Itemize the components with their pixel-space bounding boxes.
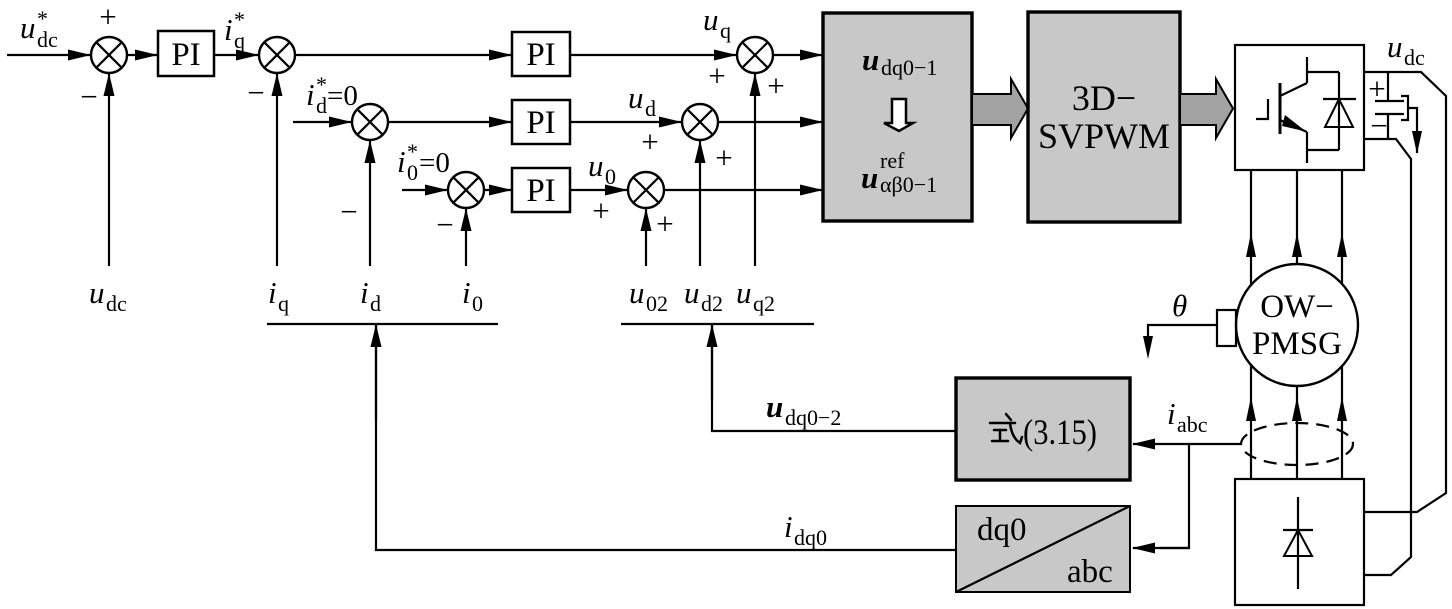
wire: u_dq0-2 from eq block to bus: [712, 325, 956, 431]
wire: i_0 feedback up into S6: [465, 209, 467, 266]
diode D1 antiparallel: [1307, 72, 1356, 150]
wire S5 to transform block: [718, 121, 822, 123]
svg-text:=0: =0: [327, 80, 358, 112]
svg-text:i: i: [360, 275, 369, 310]
svg-text:−: −: [340, 194, 357, 229]
PI block PI3: [512, 100, 570, 144]
summing junction S2: [259, 37, 295, 73]
IGBT Q1 collector lead: [1280, 57, 1307, 96]
svg-text:abc: abc: [1177, 412, 1208, 437]
label u_dc at DC link: [1387, 29, 1425, 70]
phase line a machine to rectifier: [1246, 365, 1256, 479]
wire PI3 to S5: [570, 121, 681, 123]
wire: i_abc branch to dq0/abc block: [1133, 444, 1189, 548]
3D-SVPWM block: [1028, 12, 1180, 222]
svg-text:q2: q2: [753, 291, 775, 316]
svg-text:abc: abc: [1067, 554, 1113, 590]
svg-text:PI: PI: [526, 37, 555, 73]
svg-text:u: u: [736, 275, 752, 310]
wire: i_d feedback up into S4: [369, 141, 371, 266]
wire: DC link negative rail: [1364, 139, 1411, 575]
plus sign left of S3: [708, 58, 725, 93]
svg-text:−: −: [247, 75, 264, 110]
svg-text:i: i: [306, 77, 315, 112]
plus sign right of S5: [715, 140, 732, 175]
svg-text:+: +: [708, 58, 725, 93]
label i*d=0: [306, 72, 358, 118]
wire PI1 to S2: [214, 54, 258, 56]
label i*0=0: [397, 139, 450, 185]
wire PI2 to S3: [570, 54, 736, 56]
label i_q on feedback bus: [268, 275, 289, 316]
label u_0: [588, 148, 616, 189]
svg-text:u: u: [862, 42, 879, 77]
phase line c converter to machine: [1337, 170, 1347, 284]
transform block u_dq0-1 to u_ref: [823, 13, 972, 221]
wire: u_dc feedback up into S1: [108, 74, 110, 266]
summing junction S4: [352, 104, 388, 140]
svg-text:+: +: [592, 193, 609, 228]
svg-text:+: +: [767, 68, 784, 103]
svg-text:i: i: [268, 275, 277, 310]
eq(3.15) block: [956, 378, 1130, 480]
summing junction S3: [737, 37, 773, 73]
PI block PI1: [158, 31, 214, 76]
hanzi shi glyph: [990, 414, 1022, 443]
phase line b converter to machine: [1292, 170, 1302, 264]
plus sign left of S7: [592, 193, 609, 228]
svg-text:+: +: [641, 124, 658, 159]
svg-text:u: u: [703, 2, 719, 37]
svg-text:0: 0: [472, 291, 483, 316]
svg-text:αβ0−1: αβ0−1: [880, 172, 937, 197]
minus sign at S2: [247, 75, 264, 110]
svg-text:i: i: [224, 12, 233, 47]
label u*dc: [20, 6, 58, 52]
svg-text:i: i: [397, 144, 406, 179]
label i_0 on feedback bus: [462, 275, 483, 316]
PI block PI4: [512, 168, 570, 212]
svg-text:dq0: dq0: [794, 525, 827, 550]
svg-text:−: −: [436, 207, 453, 242]
svg-text:u: u: [684, 275, 700, 310]
wire: input u*dc reference into S1: [7, 54, 90, 56]
svg-text:i: i: [784, 509, 793, 544]
svg-text:d: d: [370, 291, 381, 316]
svg-text:q: q: [278, 291, 289, 316]
svg-text:u: u: [766, 389, 783, 424]
plus sign at capacitor: [1368, 71, 1385, 106]
summing junction S1: [91, 37, 127, 73]
svg-text:q: q: [234, 28, 245, 53]
svg-text:u: u: [89, 275, 105, 310]
phase line a converter to machine: [1246, 170, 1256, 285]
dq0/abc transform block: [956, 506, 1130, 592]
svg-text:+: +: [99, 0, 116, 34]
summing junction S7: [628, 172, 664, 208]
plus sign left of S5: [641, 124, 658, 159]
svg-text:dc: dc: [106, 291, 127, 316]
IGBT Q1 body bar: [1279, 83, 1282, 134]
svg-text:SVPWM: SVPWM: [1038, 116, 1170, 156]
svg-text:i: i: [462, 275, 471, 310]
svg-text:PI: PI: [526, 105, 555, 141]
svg-text:u: u: [1387, 29, 1403, 64]
svg-text:u: u: [20, 10, 36, 45]
svg-text:+: +: [715, 140, 732, 175]
svg-text:d: d: [316, 93, 327, 118]
summing junction S5: [682, 104, 718, 140]
wire: i_abc to eq block: [1133, 443, 1241, 445]
label i*q: [224, 7, 245, 53]
svg-text:dq0−2: dq0−2: [785, 405, 841, 430]
wire: theta position signal: [1143, 325, 1217, 359]
label u_q2 on voltage bus: [736, 275, 775, 316]
phase line c machine to rectifier: [1337, 366, 1347, 479]
current sensor ellipse: [1241, 423, 1353, 465]
svg-text:ref: ref: [880, 148, 905, 173]
svg-text:0: 0: [407, 160, 418, 185]
svg-text:dq0: dq0: [977, 512, 1027, 548]
plus sign right of S3: [767, 68, 784, 103]
svg-text:u: u: [861, 160, 878, 195]
wire: u_d2 up into S5: [699, 141, 701, 266]
wire: u_q2 up into S3: [754, 74, 756, 266]
u_dc sense bracket and arrow: [1401, 96, 1422, 154]
label i_dq0: [784, 509, 827, 550]
svg-text:−: −: [80, 79, 97, 114]
IGBT Q1 emitter with arrow: [1280, 115, 1307, 163]
svg-text:d: d: [645, 96, 656, 121]
label theta: [1172, 288, 1187, 323]
svg-text:+: +: [1368, 71, 1385, 106]
svg-text:−: −: [1370, 108, 1387, 143]
svg-text:PI: PI: [171, 37, 200, 73]
OW-PMSG machine: [1236, 264, 1358, 386]
wire: i_dq0 from dq0/abc block to bus: [376, 325, 956, 550]
svg-text:dc: dc: [1404, 45, 1425, 70]
wire: i*0 reference into S6: [402, 189, 447, 191]
wire: i_q feedback up into S2: [276, 74, 278, 266]
svg-text:3D−: 3D−: [1072, 78, 1136, 118]
wire: DC link positive rail: [1364, 72, 1446, 512]
IGBT Q1 gate: [1256, 99, 1268, 119]
svg-text:dq0−1: dq0−1: [881, 55, 937, 80]
wire S6 to PI4: [484, 189, 511, 191]
label u_dq0-2: [766, 389, 841, 430]
svg-text:u: u: [628, 80, 644, 115]
label u_d: [628, 80, 656, 121]
wire S1 to PI1: [127, 54, 157, 56]
svg-text:dc: dc: [37, 27, 58, 52]
wire: u_02 up into S7: [645, 209, 647, 266]
capacitor C1: [1375, 72, 1404, 139]
encoder box: [1217, 310, 1236, 346]
minus sign at S4: [340, 194, 357, 229]
summing junction S6: [448, 172, 484, 208]
wire S4 to PI3: [388, 121, 511, 123]
svg-text:OW−: OW−: [1260, 289, 1334, 325]
PI block PI2: [512, 32, 570, 76]
minus sign at capacitor: [1370, 108, 1387, 143]
svg-text:u: u: [629, 275, 645, 310]
label u_q: [703, 2, 731, 43]
svg-text:PI: PI: [526, 173, 555, 209]
svg-text:PMSG: PMSG: [1252, 326, 1342, 362]
block arrow SVPWM to converter: [1180, 79, 1233, 138]
block arrow transform to SVPWM: [972, 79, 1028, 138]
label u_dc feedback: [89, 275, 127, 316]
label i_d on feedback bus: [360, 275, 381, 316]
wire S7 to transform block: [664, 189, 822, 191]
rectifier box: [1235, 479, 1364, 605]
minus sign at S6: [436, 207, 453, 242]
svg-text:i: i: [1167, 396, 1176, 431]
phase line b machine to rectifier: [1292, 386, 1302, 479]
label u_d2 on voltage bus: [684, 275, 723, 316]
wire S3 to transform block: [773, 54, 822, 56]
label i_abc: [1167, 396, 1208, 437]
wire S2 to PI2: [295, 54, 511, 56]
svg-text:θ: θ: [1172, 288, 1187, 323]
svg-text:02: 02: [646, 291, 668, 316]
voltage feedforward bus line: [621, 323, 814, 325]
plus sign at S1: [99, 0, 116, 34]
hollow down arrow inside transform block: [884, 99, 913, 131]
wire PI4 to S7: [570, 189, 627, 191]
minus sign at S1: [80, 79, 97, 114]
svg-text:0: 0: [605, 164, 616, 189]
current feedback bus line: [267, 323, 498, 325]
diode D2 in rectifier: [1283, 497, 1313, 589]
svg-text:(3.15): (3.15): [1023, 412, 1097, 452]
wire: i*d reference into S4: [293, 121, 351, 123]
svg-text:u: u: [588, 148, 604, 183]
label u_02 on voltage bus: [629, 275, 668, 316]
converter box: [1235, 45, 1364, 170]
svg-text:q: q: [720, 18, 731, 43]
svg-text:=0: =0: [419, 147, 450, 179]
svg-text:+: +: [656, 206, 673, 241]
svg-text:d2: d2: [701, 291, 723, 316]
plus sign right of S7: [656, 206, 673, 241]
